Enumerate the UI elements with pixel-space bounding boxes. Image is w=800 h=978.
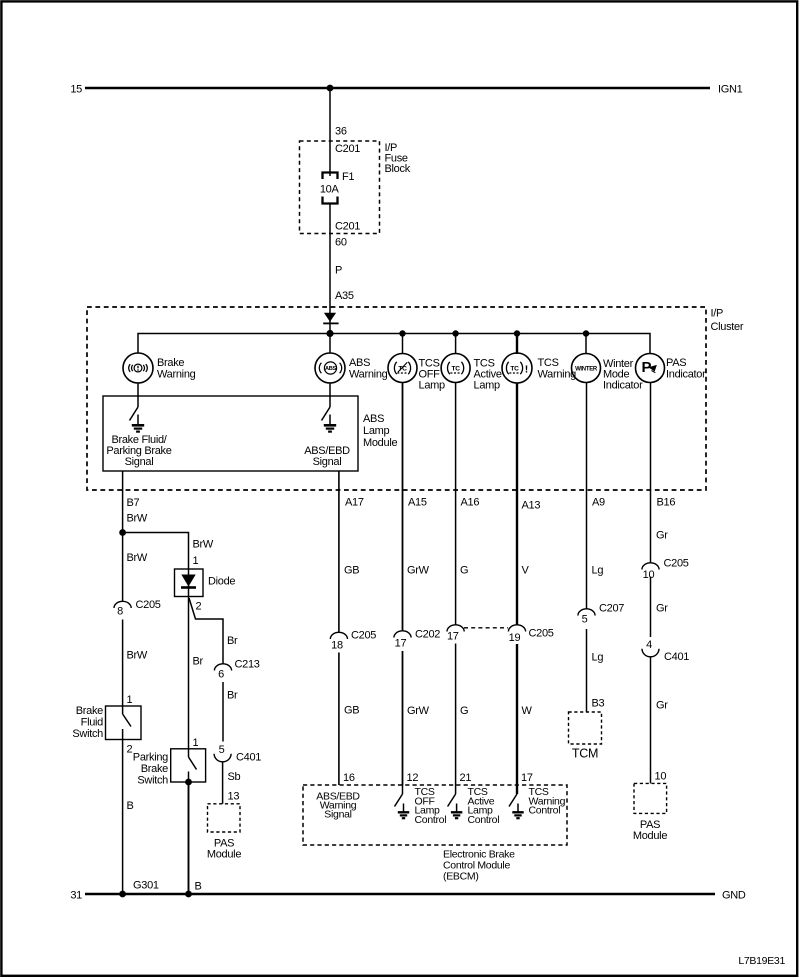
wire from IGN1 bus to fuse F1 (329, 88, 331, 176)
svg-text:ABS: ABS (349, 357, 370, 369)
junction on bus at TCS OFF (399, 330, 405, 336)
svg-text:16: 16 (343, 772, 355, 784)
svg-text:Control: Control (529, 805, 561, 817)
connector C205 pin 8 (114, 601, 131, 608)
svg-text:Signal: Signal (125, 456, 154, 468)
junction parking brake to GND bus (185, 891, 192, 898)
switch Brake Fluid/Parking Brake Signal (130, 407, 139, 421)
wire parking brake switch to ground bus (188, 782, 190, 894)
svg-text:10: 10 (655, 771, 667, 783)
wire IGN1 bus (85, 87, 710, 89)
svg-text:Lg: Lg (592, 652, 604, 664)
svg-text:B: B (127, 800, 134, 812)
svg-text:Signal: Signal (324, 809, 351, 821)
wire C207 to TCM (586, 629, 588, 712)
switch TCS Active Lamp Control (455, 785, 457, 794)
ground in ABS lamp module (left) (137, 415, 139, 426)
svg-text:19: 19 (509, 632, 521, 644)
lamp Brake Warning (123, 353, 153, 383)
svg-text:Switch: Switch (137, 775, 168, 787)
fuse F1 (323, 173, 338, 180)
svg-text:B16: B16 (657, 497, 676, 509)
arrow into I/P cluster (324, 313, 336, 322)
svg-text:6: 6 (218, 669, 224, 681)
wire from fuse F1 to I/P cluster (329, 204, 331, 334)
connector C213 pin 6 (214, 664, 231, 671)
lamp TCS Warning (502, 353, 532, 383)
wire A15 GrW lower (402, 651, 404, 785)
svg-text:TCS: TCS (538, 357, 559, 369)
svg-text:Control: Control (415, 814, 447, 826)
svg-text:C201: C201 (335, 143, 360, 155)
svg-text:B: B (195, 881, 202, 893)
wire bus to TCS Active lamp (455, 334, 457, 355)
svg-text:12: 12 (407, 772, 419, 784)
junction on IGN1 bus (327, 85, 334, 92)
node junction BrW split (119, 529, 126, 536)
svg-text:Warning: Warning (157, 369, 196, 381)
svg-text:13: 13 (228, 791, 240, 803)
svg-text:TC: TC (510, 366, 519, 373)
svg-text:Indicator: Indicator (603, 380, 643, 392)
ground in ABS lamp module (right) (329, 415, 331, 426)
switch TCS Warning Control (516, 785, 518, 794)
svg-text:1: 1 (193, 555, 199, 567)
junction on bus at Winter (583, 330, 589, 336)
wire bus to Winter lamp (585, 334, 587, 355)
connector pin 17 (C205 link) (447, 625, 464, 632)
svg-text:15: 15 (70, 84, 82, 96)
wire A16 G lower (455, 644, 457, 786)
diode (188, 569, 190, 597)
parking brake switch box (171, 749, 206, 782)
wire A17 GB lower (338, 653, 340, 786)
lamp PAS Indicator (636, 354, 665, 383)
svg-text:A13: A13 (522, 500, 541, 512)
svg-text:TCM: TCM (572, 747, 598, 761)
svg-text:Diode: Diode (208, 576, 235, 588)
svg-text:Cluster: Cluster (711, 321, 744, 333)
parking brake switch (188, 749, 190, 757)
connector C205 pin 19 (508, 625, 525, 632)
svg-text:1: 1 (193, 737, 199, 749)
svg-text:A17: A17 (345, 497, 364, 509)
svg-text:C205: C205 (351, 630, 376, 642)
PAS Module dashed box (right) (634, 783, 667, 813)
svg-text:8: 8 (117, 606, 123, 618)
svg-text:PAS: PAS (666, 357, 686, 369)
svg-text:Lamp: Lamp (363, 425, 389, 437)
svg-text:WINTER: WINTER (575, 366, 598, 372)
svg-text:2: 2 (196, 601, 202, 613)
svg-text:Gr: Gr (656, 530, 668, 542)
svg-text:BrW: BrW (193, 539, 214, 551)
wire bus to ABS lamp (329, 334, 331, 354)
wire B16 Gr upper (650, 383, 652, 563)
brake fluid switch box (106, 706, 142, 740)
connector C205 pin 18 (330, 632, 347, 639)
switch ABS/EBD Signal (322, 407, 331, 421)
wire diode to parking brake switch (188, 597, 190, 749)
switch TCS OFF Lamp Control (402, 785, 404, 794)
svg-text:C213: C213 (235, 659, 260, 671)
svg-text:L7B19E31: L7B19E31 (738, 955, 785, 967)
svg-text:C205: C205 (136, 599, 161, 611)
wire C401 to PAS module (right) (650, 657, 652, 784)
wire A9 Lg upper (586, 383, 588, 609)
svg-text:Brake: Brake (141, 763, 168, 775)
wire C205 to C401 (650, 577, 652, 638)
svg-text:A35: A35 (335, 290, 354, 302)
svg-text:Br: Br (227, 635, 238, 647)
wire ABS Warning lamp to switch (329, 383, 331, 407)
wire C213 to C401 (222, 682, 224, 742)
ABS Lamp Module box (103, 396, 358, 471)
PAS Module dashed box (left) (208, 804, 241, 832)
I/P Cluster dashed box (87, 307, 706, 490)
svg-text:GrW: GrW (407, 705, 430, 717)
svg-text:C207: C207 (599, 603, 624, 615)
svg-text:BrW: BrW (127, 650, 148, 662)
junction on bus at A35 (326, 330, 333, 337)
wire diode to C213 (jog) (189, 598, 223, 664)
svg-text:A15: A15 (408, 497, 427, 509)
ground TCS Warning Control (517, 804, 519, 813)
wire A16 G upper (455, 383, 457, 625)
I/P Fuse Block dashed box (300, 141, 380, 234)
svg-text:17: 17 (521, 772, 533, 784)
svg-text:ABS: ABS (325, 366, 336, 372)
svg-text:G: G (460, 565, 468, 577)
svg-text:C201: C201 (335, 221, 360, 233)
lamp ABS Warning (315, 353, 345, 383)
svg-text:Signal: Signal (313, 456, 342, 468)
svg-text:Lamp: Lamp (419, 380, 445, 392)
svg-text:18: 18 (331, 640, 343, 652)
svg-text:Fluid: Fluid (81, 717, 104, 729)
svg-text:1: 1 (127, 694, 133, 706)
svg-text:GrW: GrW (407, 565, 430, 577)
svg-text:Warning: Warning (349, 369, 388, 381)
svg-text:17: 17 (395, 638, 407, 650)
svg-text:36: 36 (335, 126, 347, 138)
svg-text:17: 17 (447, 631, 459, 643)
connector C205 pin 10 (642, 563, 659, 570)
svg-text:10: 10 (643, 569, 655, 581)
junction on bus at TCS Active (452, 330, 458, 336)
svg-text:GB: GB (344, 565, 359, 577)
svg-text:V: V (522, 565, 530, 577)
svg-text:A16: A16 (461, 497, 480, 509)
svg-text:GB: GB (344, 705, 359, 717)
wire A15 GrW upper (402, 383, 404, 631)
svg-text:!: ! (525, 363, 528, 375)
svg-text:GND: GND (722, 890, 746, 902)
wire Brake Warning lamp to switch (137, 383, 139, 407)
svg-text:F1: F1 (342, 171, 354, 183)
svg-text:Block: Block (385, 163, 411, 175)
wire A13 W lower (516, 644, 518, 785)
svg-text:Switch: Switch (72, 728, 103, 740)
svg-text:Gr: Gr (656, 700, 668, 712)
wire bus to TCS Warning lamp (516, 334, 518, 355)
svg-text:G: G (460, 705, 468, 717)
junction below parking brake switch (185, 779, 192, 786)
svg-text:C205: C205 (664, 558, 689, 570)
wire B7 BrW from ABS lamp module (122, 471, 124, 602)
svg-text:Module: Module (207, 849, 241, 861)
wire C205 to brake fluid switch (122, 620, 124, 707)
ground G301 junction (119, 891, 126, 898)
svg-text:I/P: I/P (711, 308, 724, 320)
svg-text:Lg: Lg (592, 565, 604, 577)
svg-text:2: 2 (127, 744, 133, 756)
svg-text:Sb: Sb (228, 771, 241, 783)
wire branch to diode (123, 533, 189, 570)
svg-text:G301: G301 (133, 880, 159, 892)
svg-text:5: 5 (582, 614, 588, 626)
svg-text:Parking: Parking (133, 752, 168, 764)
svg-text:Gr: Gr (656, 603, 668, 615)
connector C202 pin 17 (394, 631, 411, 638)
wire C401 to PAS module (222, 762, 224, 804)
cluster bus wire (138, 334, 650, 354)
svg-text:10A: 10A (320, 184, 340, 196)
svg-text:Br: Br (227, 690, 238, 702)
svg-text:Brake: Brake (76, 705, 103, 717)
svg-text:Control: Control (468, 814, 500, 826)
lamp TCS OFF (388, 354, 417, 383)
svg-text:Brake: Brake (157, 357, 184, 369)
brake fluid switch (122, 706, 124, 714)
svg-text:5: 5 (219, 744, 225, 756)
wire A17 GB upper (338, 471, 340, 633)
dashed connector link (464, 627, 508, 629)
ground TCS OFF Lamp Control (403, 804, 405, 813)
svg-text:(EBCM): (EBCM) (443, 871, 479, 883)
ground TCS Active Lamp Control (456, 804, 458, 813)
svg-text:C401: C401 (236, 752, 261, 764)
connector C207 pin 5 (578, 609, 595, 616)
svg-text:ABS: ABS (363, 413, 384, 425)
wire GND bus (85, 893, 715, 895)
svg-text:B7: B7 (127, 497, 140, 509)
diode box (175, 569, 204, 597)
svg-text:Warning: Warning (538, 369, 577, 381)
svg-text:A9: A9 (592, 497, 605, 509)
svg-text:IGN1: IGN1 (718, 84, 743, 96)
svg-text:P: P (335, 265, 342, 277)
TCM dashed box (569, 712, 602, 744)
wire brake fluid switch to ground bus (122, 740, 124, 895)
svg-text:31: 31 (70, 890, 82, 902)
svg-text:Module: Module (633, 830, 667, 842)
EBCM dashed box (303, 785, 567, 845)
svg-text:B3: B3 (592, 698, 605, 710)
svg-text:Br: Br (193, 656, 204, 668)
svg-text:C202: C202 (415, 629, 440, 641)
lamp Winter Mode (572, 354, 601, 383)
svg-text:21: 21 (460, 772, 472, 784)
svg-text:Module: Module (363, 437, 397, 449)
svg-text:4: 4 (646, 639, 652, 651)
svg-text:C401: C401 (664, 651, 689, 663)
junction on bus at TCS Warning (514, 330, 520, 336)
svg-text:W: W (522, 705, 533, 717)
wire bus to TCS OFF lamp (402, 334, 404, 355)
svg-text:C205: C205 (529, 628, 554, 640)
svg-text:Lamp: Lamp (474, 380, 500, 392)
svg-text:BrW: BrW (127, 513, 148, 525)
svg-text:Indicator: Indicator (666, 369, 706, 381)
svg-text:60: 60 (335, 237, 347, 249)
svg-text:TC: TC (451, 366, 460, 373)
svg-text:BrW: BrW (127, 552, 148, 564)
wire A13 V upper (516, 383, 518, 625)
lamp TCS Active (441, 354, 470, 383)
